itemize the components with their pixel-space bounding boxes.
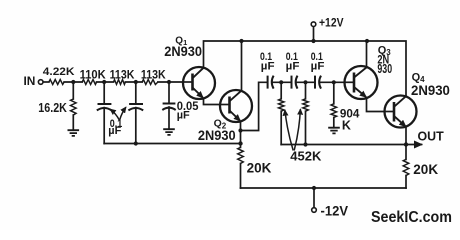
svg-text:930: 930 bbox=[377, 61, 392, 76]
svg-text:SeekIC.com: SeekIC.com bbox=[371, 209, 452, 226]
svg-text:20K: 20K bbox=[413, 162, 438, 177]
svg-text:16.2K: 16.2K bbox=[38, 101, 67, 115]
svg-text:µF: µF bbox=[177, 110, 190, 122]
svg-text:OUT: OUT bbox=[418, 128, 444, 143]
svg-text:µF: µF bbox=[261, 61, 275, 73]
svg-text:µF: µF bbox=[286, 61, 300, 73]
svg-text:110K: 110K bbox=[80, 67, 106, 81]
svg-text:20K: 20K bbox=[247, 161, 272, 176]
svg-text:+12V: +12V bbox=[319, 15, 344, 29]
svg-text:µF: µF bbox=[311, 61, 325, 73]
svg-text:K: K bbox=[342, 118, 351, 132]
svg-text:452K: 452K bbox=[290, 149, 322, 164]
svg-text:113K: 113K bbox=[110, 67, 135, 81]
svg-text:µF: µF bbox=[108, 125, 121, 137]
svg-text:2N930: 2N930 bbox=[164, 44, 202, 59]
svg-text:IN: IN bbox=[24, 74, 36, 88]
svg-text:2N930: 2N930 bbox=[411, 82, 450, 98]
svg-text:2N930: 2N930 bbox=[198, 127, 236, 143]
svg-text:113K: 113K bbox=[141, 67, 166, 81]
svg-text:4.22K: 4.22K bbox=[43, 66, 75, 78]
svg-text:-12V: -12V bbox=[321, 203, 349, 219]
